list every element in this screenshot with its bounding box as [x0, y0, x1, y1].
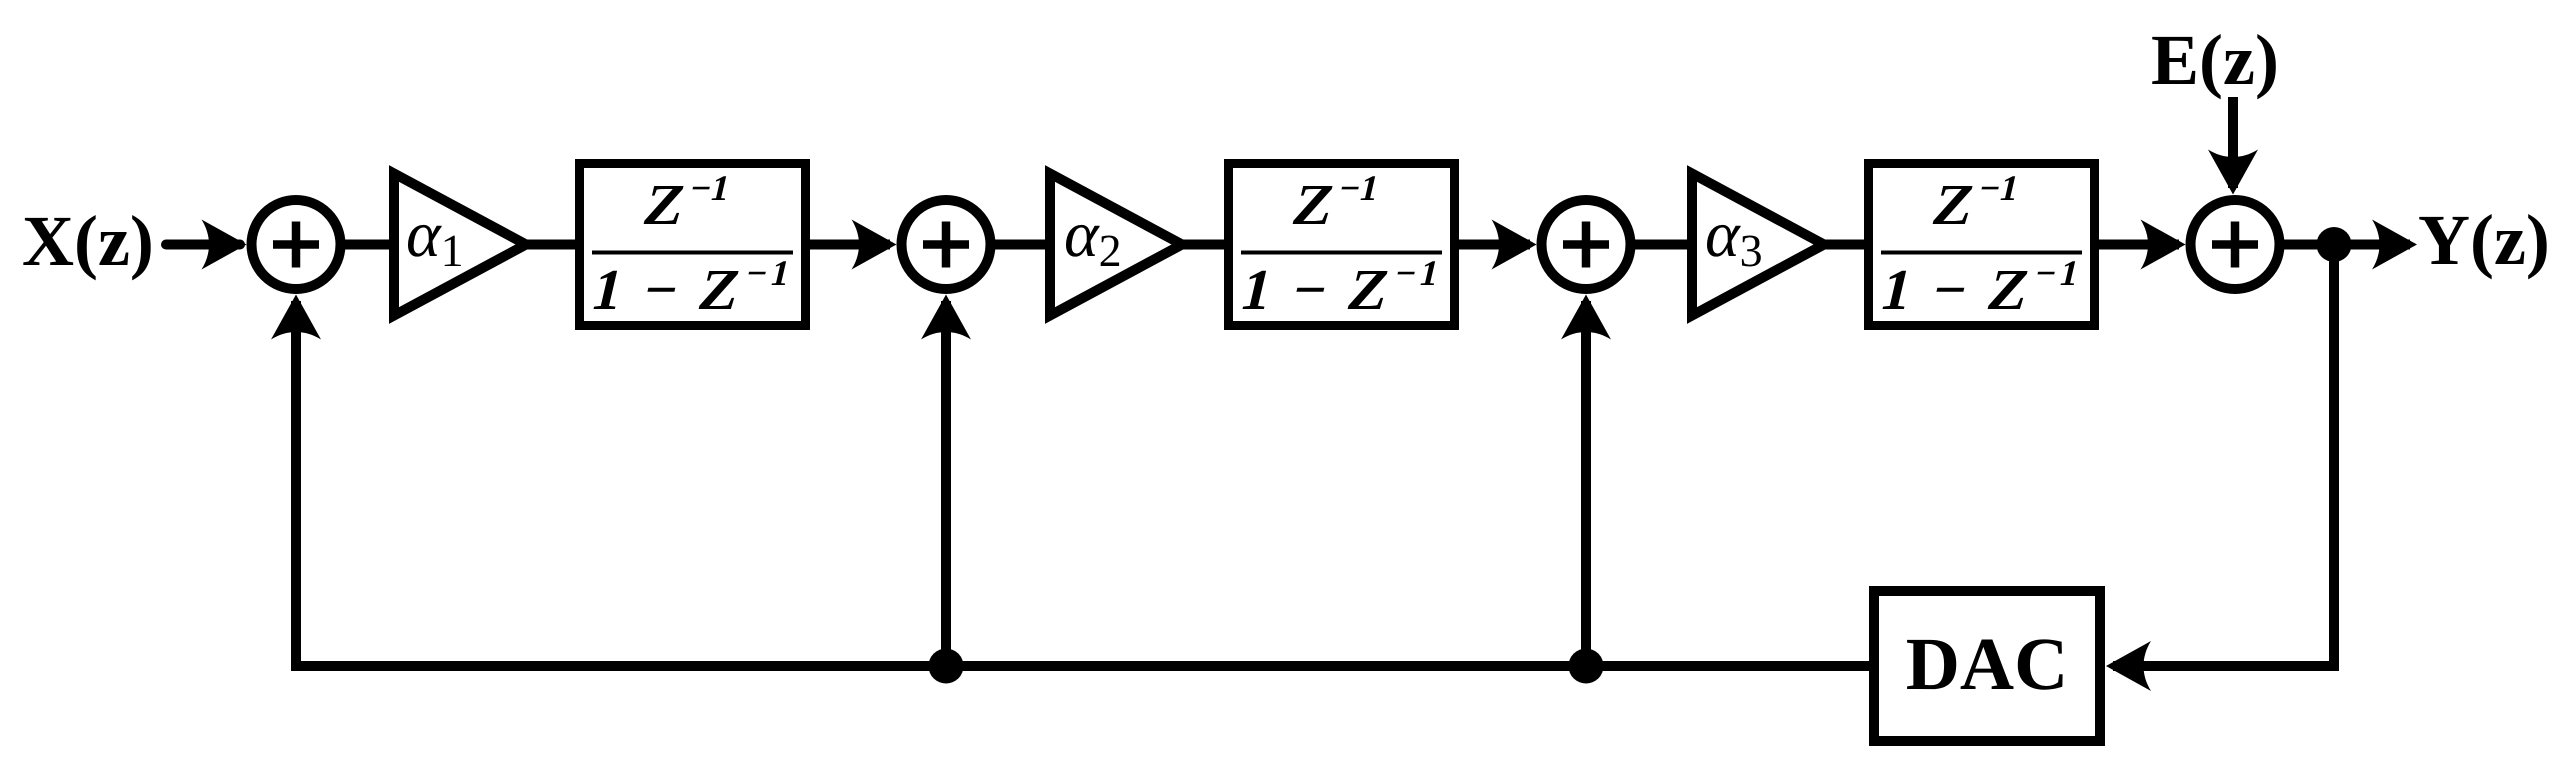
wire H3 to adder S4: [2097, 240, 2179, 250]
wire X(z) to adder S1: [166, 240, 240, 250]
svg-text:Y(z): Y(z): [2418, 200, 2550, 280]
junction dot below S3: [1569, 649, 1604, 684]
wire output node down and left into DAC: [2113, 245, 2334, 667]
feedback wire up into S2: [941, 301, 951, 666]
arrowhead into adder S1: [202, 220, 247, 270]
wire S2 to amp A2: [990, 240, 1052, 250]
adder S1: [252, 200, 341, 289]
feedback wire DAC to adder S1: [296, 301, 1869, 666]
amplifier A2 triangle: [1050, 174, 1182, 316]
wire A2 to integrator H2: [1180, 240, 1230, 250]
integrator H3 box: [1869, 164, 2095, 326]
junction node dot at output: [2317, 227, 2352, 262]
wire A1 to integrator H1: [524, 240, 580, 250]
integrator H2 box: [1229, 164, 1455, 326]
svg-text:E(z): E(z): [2151, 20, 2279, 100]
arrowhead into adder S2: [852, 220, 897, 270]
arrowhead feedback into S2: [921, 295, 971, 340]
arrowhead to Y(z): [2372, 220, 2417, 270]
wire S3 to amp A3: [1630, 240, 1694, 250]
adder S4: [2191, 200, 2280, 289]
amplifier A1 triangle: [394, 174, 526, 316]
wire S4 to output Y(z): [2280, 240, 2410, 250]
arrowhead into adder S4: [2141, 220, 2186, 270]
DAC box: [1874, 591, 2100, 741]
svg-text:DAC: DAC: [1906, 623, 2069, 706]
junction dot below S2: [929, 649, 964, 684]
svg-text:X(z): X(z): [22, 201, 154, 281]
wire H2 to adder S3: [1457, 240, 1530, 250]
adder S3: [1542, 200, 1631, 289]
arrowhead feedback into S3: [1561, 295, 1611, 340]
arrowhead into adder S3: [1492, 220, 1537, 270]
integrator H1 box: [580, 164, 806, 326]
wire S1 to amp A1: [340, 240, 396, 250]
wire E(z) down to adder S4: [2228, 97, 2238, 188]
arrowhead feedback into S1: [271, 295, 321, 340]
wire A3 to integrator H3: [1822, 240, 1870, 250]
arrowhead into DAC: [2106, 641, 2151, 691]
feedback wire up into S3: [1581, 301, 1591, 666]
adder S2: [902, 200, 991, 289]
arrowhead E(z) into S4: [2208, 150, 2258, 195]
wire H1 to adder S2: [808, 240, 890, 250]
amplifier A3 triangle: [1692, 174, 1824, 316]
